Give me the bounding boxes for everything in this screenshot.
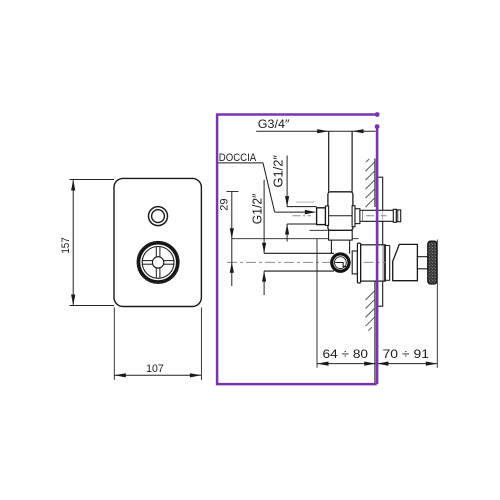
right piece [355,209,360,224]
right nut [352,206,355,227]
plate front view [114,178,201,306]
collar under block [329,230,353,240]
handle cone [393,244,418,280]
svg-text:70 ÷ 91: 70 ÷ 91 [383,349,430,361]
knurled knob [428,241,437,284]
plate bar edges crossing pipe (light) [377,211,379,221]
inlet boss circle [331,253,350,272]
riser pipe [328,131,330,191]
bottom dims [436,240,438,368]
cone connector ring [385,245,389,247]
plate bar edges crossing cylinder (light) [377,245,379,280]
purple overlay box [217,115,377,385]
wall surface line (interrupted at the through-wall hole) [374,159,376,208]
svg-text:107: 107 [146,363,164,375]
end cap [396,210,400,222]
svg-text:DOCCIA: DOCCIA [219,152,257,164]
left nut [317,208,326,225]
shower pipe centerline right part [366,215,387,217]
svg-text:G1/2″: G1/2″ [271,155,285,188]
body block [328,192,353,231]
svg-text:G1/2″: G1/2″ [250,193,264,224]
inlet pipe outline lines [264,252,334,254]
dim 107 [114,308,201,381]
wall hatching [366,159,375,331]
extension line x=317 (stub face) [316,239,318,368]
handle wheel [137,241,179,283]
svg-text:64 ÷ 80: 64 ÷ 80 [323,349,369,361]
centerline shower stub [293,215,312,217]
svg-text:29: 29 [219,198,231,210]
diverter button (double circle) [149,207,168,226]
shower through-wall pipe [363,210,393,221]
left washer [325,206,328,225]
handle stem [417,257,427,269]
flange disc [357,243,360,283]
ferrule [393,209,396,222]
escutcheon plate side view [376,177,382,306]
extension line at y=238.7 [232,238,359,240]
right step [360,210,363,221]
dim 157 [70,180,115,306]
dim 29 (x=231.8) [227,191,239,193]
svg-text:157: 157 [60,237,72,253]
shower stub outline lines [287,206,317,208]
neck [330,240,332,254]
centerline main (mixer axis, left part) [227,261,360,263]
cartridge cylinder through wall [361,245,386,281]
section A between body and flange [352,251,357,274]
svg-text:G3/4″: G3/4″ [258,117,290,131]
centerline main (right part over cylinder) [364,261,386,263]
hidden edge line above stub [296,201,315,203]
